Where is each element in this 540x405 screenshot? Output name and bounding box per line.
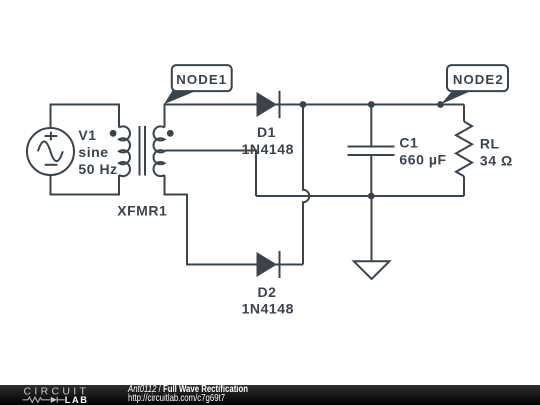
transformer XFMR1 secondary winding [154, 126, 165, 176]
wire bottom rail [256, 195, 464, 197]
svg-text:50 Hz: 50 Hz [78, 161, 117, 177]
junction dot D2 riser / top rail [300, 101, 307, 108]
label C1 [399, 134, 446, 167]
label RL [480, 136, 513, 169]
label D1 [242, 124, 294, 157]
label D2 [242, 284, 294, 317]
svg-text:34 Ω: 34 Ω [480, 153, 513, 169]
wire V1 loop bottom [51, 175, 120, 195]
label V1 value [78, 127, 117, 177]
XFMR1 primary polarity dot [110, 130, 117, 137]
resistor RL [456, 122, 472, 177]
svg-text:LAB: LAB [65, 395, 89, 405]
XFMR1 secondary polarity dot [167, 130, 174, 137]
capacitor C1 bottom lead [370, 156, 372, 196]
capacitor C1 top lead [370, 105, 372, 146]
footer url text [128, 394, 225, 404]
svg-text:C1: C1 [399, 134, 418, 150]
svg-text:1N4148: 1N4148 [242, 141, 294, 157]
junction dot NODE2 [437, 101, 444, 108]
node NODE1 flag [164, 65, 232, 104]
svg-text:RL: RL [480, 136, 500, 152]
wire center tap [165, 151, 257, 197]
footer bar [0, 385, 540, 405]
svg-text:D1: D1 [257, 124, 276, 140]
wire NODE2 to RL top [463, 105, 465, 122]
CircuitLab logo [0, 384, 110, 405]
svg-text:XFMR1: XFMR1 [117, 203, 167, 219]
diode D1 [257, 91, 280, 118]
voltage source V1 [27, 128, 74, 175]
wire secondary top to rail [165, 105, 465, 128]
transformer core [140, 126, 146, 176]
svg-text:V1: V1 [78, 127, 96, 143]
wire V1 loop top [51, 105, 120, 129]
svg-text:D2: D2 [258, 284, 277, 300]
footer title text [128, 385, 248, 395]
junction dot C1 top / top rail [368, 101, 375, 108]
svg-text:NODE2: NODE2 [453, 72, 504, 87]
node NODE2 flag [441, 65, 508, 104]
wire RL bottom [463, 176, 465, 196]
svg-text:sine: sine [78, 144, 108, 160]
diode D2 [257, 251, 280, 278]
svg-text:NODE1: NODE1 [176, 72, 227, 87]
capacitor C1 plates [348, 147, 395, 156]
junction dot C1 bottom / bottom rail [368, 193, 375, 200]
ground [354, 261, 390, 279]
svg-text:1N4148: 1N4148 [242, 300, 294, 316]
svg-text:660 µF: 660 µF [399, 152, 446, 168]
wire secondary bottom to D2 [165, 175, 304, 265]
wire D2 cathode riser with hop [303, 105, 309, 265]
wire ground stem [371, 196, 373, 261]
transformer XFMR1 primary winding [119, 126, 130, 176]
